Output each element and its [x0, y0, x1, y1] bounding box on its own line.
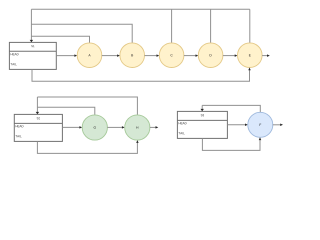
wire B.next to C — [145, 55, 157, 57]
wire H.next null — [150, 126, 156, 128]
box S2 — [14, 114, 62, 141]
wire S2.HEAD to G — [62, 126, 79, 128]
wire D.next to E — [223, 55, 235, 57]
node H — [125, 115, 150, 140]
node D — [198, 43, 223, 68]
wire S2.TAIL to H bottom — [37, 141, 137, 153]
node E — [238, 43, 263, 68]
node C — [159, 43, 184, 68]
wire back-edge B to S1 — [31, 24, 132, 43]
wire back-edge G to S2 — [37, 107, 94, 115]
wire F.next null — [273, 124, 281, 126]
wire back-edge H to S2 — [37, 97, 137, 115]
wire back-edge F to S3 — [202, 105, 260, 112]
wire S1.TAIL to E bottom — [32, 69, 250, 81]
wire S3.HEAD to F — [227, 124, 245, 126]
box S3 — [177, 111, 227, 138]
wire G.next to H — [107, 126, 122, 128]
node G — [82, 115, 107, 140]
wire S3.TAIL to F bottom — [202, 138, 260, 150]
arrowhead into S1 top — [30, 40, 33, 43]
node F — [248, 112, 273, 137]
node A — [77, 43, 102, 68]
wire E.next null — [262, 55, 267, 57]
wire S1.HEAD to A — [56, 55, 75, 57]
wire trunk into S2 top — [36, 97, 38, 112]
wire drop to node E — [249, 9, 251, 43]
wire trunk into S3 top — [201, 105, 203, 109]
wire back-edge A to S1 — [31, 36, 89, 43]
wire trunk into S1 top — [30, 9, 32, 40]
wire A.next to B — [102, 55, 118, 57]
box S1 — [9, 42, 56, 69]
node B — [120, 43, 145, 68]
arrowhead into S2 top — [36, 112, 39, 115]
wire drop to node C — [171, 9, 173, 43]
arrowhead into S3 top — [201, 109, 204, 112]
wire back-edges C,D,E to S1 (shared top rail) — [31, 9, 249, 43]
wire drop to node D — [210, 9, 212, 43]
wire C.next to D — [184, 55, 196, 57]
